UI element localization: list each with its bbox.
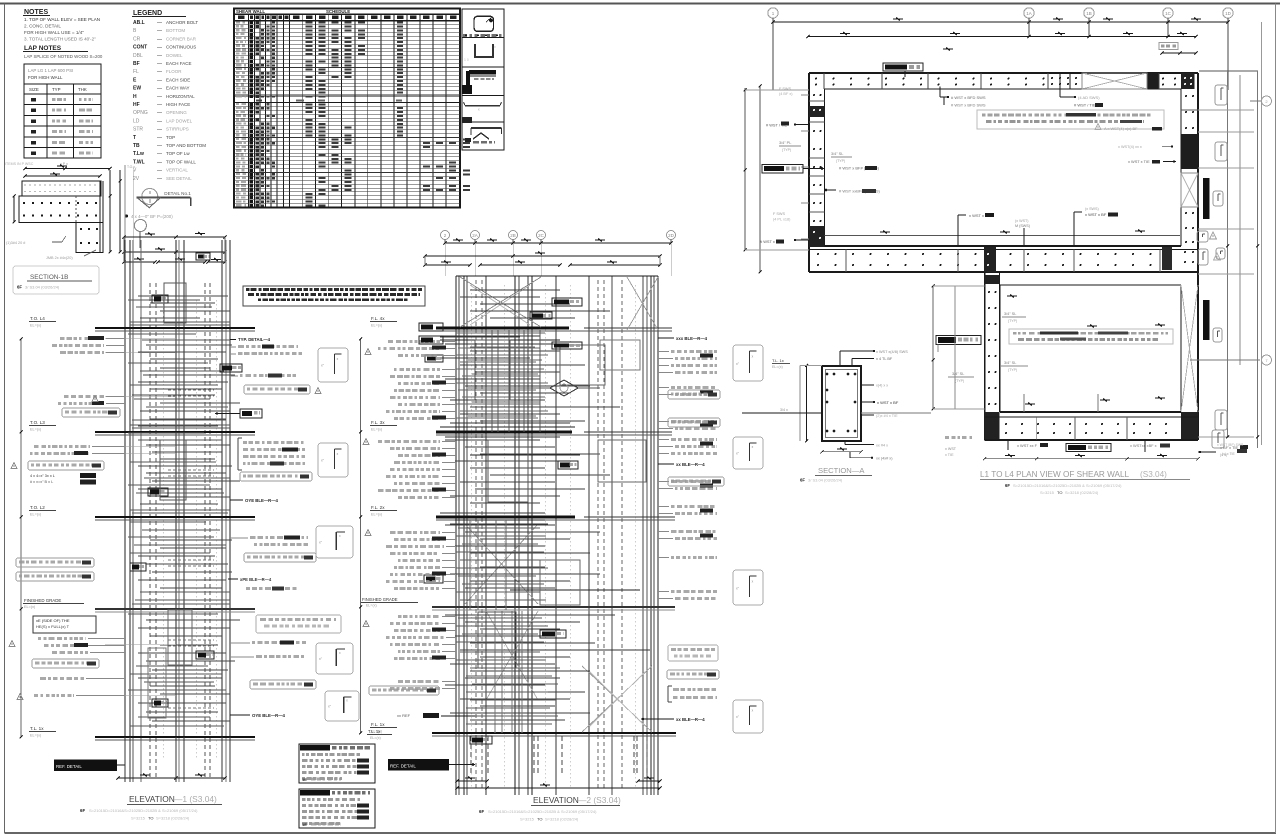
svg-text:S=3218 (02/28/24): S=3218 (02/28/24): [545, 817, 579, 822]
svg-text:FL: FL: [133, 69, 139, 75]
svg-text:EL=(x): EL=(x): [371, 324, 383, 328]
svg-text:6F: 6F: [1005, 483, 1010, 488]
svg-text:CR: CR: [133, 36, 141, 42]
svg-text:REF. DETAIL: REF. DETAIL: [56, 764, 82, 769]
svg-text:BOTTOM: BOTTOM: [166, 28, 185, 33]
svg-text:—: —: [157, 61, 162, 67]
svg-text:—: —: [157, 168, 162, 174]
svg-text:# WST x BFD SWS: # WST x BFD SWS: [951, 95, 986, 100]
svg-text:—: —: [157, 159, 162, 165]
svg-text:xx (4x# x): xx (4x# x): [876, 457, 893, 461]
svg-text:LAP SPLICE OF NOTED WOOD S=200: LAP SPLICE OF NOTED WOOD S=200: [24, 54, 103, 59]
svg-text:JMB 2x #4x(20): JMB 2x #4x(20): [46, 256, 73, 260]
svg-text:TYP: TYP: [52, 87, 61, 92]
svg-text:ELEVATION: ELEVATION: [533, 795, 579, 805]
svg-text:FINISHED GRADE: FINISHED GRADE: [362, 597, 398, 602]
svg-text:1E: 1E: [302, 777, 307, 782]
svg-text:# x x=x" B x L: # x x=x" B x L: [30, 480, 53, 484]
svg-text:EL=(x): EL=(x): [772, 365, 783, 369]
svg-text:(TYP): (TYP): [1008, 368, 1017, 372]
svg-text:(S3.04): (S3.04): [1140, 470, 1167, 479]
svg-text:F SWS: F SWS: [779, 87, 791, 91]
svg-text:HIGH FACE: HIGH FACE: [166, 102, 190, 107]
svg-text:—1 (S3.04): —1 (S3.04): [174, 794, 217, 804]
svg-text:(x WST): (x WST): [1015, 219, 1029, 223]
svg-text:(4 PL x18): (4 PL x18): [773, 218, 791, 222]
svg-text:REF. DETAIL: REF. DETAIL: [390, 764, 416, 769]
svg-text:H: H: [133, 94, 137, 100]
svg-text:1D: 1D: [1225, 11, 1232, 16]
svg-text:(1)3#4 20 #: (1)3#4 20 #: [6, 241, 26, 245]
svg-text:SHEAR WALL: SHEAR WALL: [236, 9, 265, 14]
svg-text:SCHEDULE: SCHEDULE: [326, 9, 350, 14]
svg-text:1E: 1E: [302, 822, 307, 827]
svg-text:S=3215: S=3215: [520, 817, 535, 822]
svg-text:(x) x TIE: (x) x TIE: [1222, 452, 1235, 456]
svg-text:T: T: [133, 135, 136, 141]
svg-text:T.O.x: T.O.x: [127, 165, 135, 169]
svg-text:DETAIL No.1: DETAIL No.1: [164, 191, 191, 196]
svg-text:(4 BF x): (4 BF x): [779, 92, 793, 96]
svg-text:SECTION—A: SECTION—A: [818, 466, 865, 475]
svg-text:1 0: 1 0: [464, 58, 469, 62]
svg-text:S=21015D=21016&S=21025D=2102B: S=21015D=21016&S=21025D=2102B & S=21069 …: [1013, 483, 1122, 488]
svg-text:3/4" SL: 3/4" SL: [1004, 361, 1016, 365]
svg-text:2D: 2D: [668, 233, 675, 238]
svg-text:LD: LD: [133, 118, 140, 124]
svg-text:xx #4 x: xx #4 x: [876, 444, 888, 448]
svg-text:(4 AD SWS): (4 AD SWS): [1078, 95, 1100, 100]
svg-text:(TYP): (TYP): [836, 159, 845, 163]
svg-text:—: —: [157, 77, 162, 83]
svg-text:—: —: [157, 118, 162, 124]
svg-text:EL=(x): EL=(x): [370, 736, 381, 740]
svg-text:CONTINUOUS: CONTINUOUS: [166, 45, 196, 50]
svg-text:M (SWS): M (SWS): [1015, 224, 1030, 228]
svg-text:—: —: [157, 69, 162, 75]
svg-text:CORNER BAR: CORNER BAR: [166, 36, 197, 41]
svg-text:—: —: [157, 36, 162, 42]
svg-text:3/4 x: 3/4 x: [780, 408, 788, 412]
svg-text:FINISHED GRADE: FINISHED GRADE: [24, 598, 61, 603]
svg-text:4 x 4—0" BF P=(200): 4 x 4—0" BF P=(200): [131, 214, 173, 219]
svg-text:xx BLE—R—4: xx BLE—R—4: [676, 717, 705, 722]
svg-text:EACH SIDE: EACH SIDE: [166, 77, 190, 82]
svg-text:ITEMS IN P WSC: ITEMS IN P WSC: [5, 162, 34, 166]
svg-text:x WST x BF: x WST x BF: [1085, 212, 1107, 217]
svg-text:EL=(x): EL=(x): [30, 734, 42, 738]
svg-text:—: —: [157, 20, 162, 26]
svg-text:6F: 6F: [80, 808, 85, 813]
svg-text:xE (SIDE OF) THE: xE (SIDE OF) THE: [36, 618, 70, 623]
svg-text:DBL: DBL: [133, 53, 143, 59]
svg-text:EL=(x): EL=(x): [24, 605, 36, 609]
svg-text:T.O. L3: T.O. L3: [30, 420, 45, 425]
svg-text:(2)x #4 x TIE: (2)x #4 x TIE: [876, 414, 898, 418]
svg-text:2A: 2A: [472, 233, 478, 238]
svg-text:OYE BLE—R—4: OYE BLE—R—4: [252, 713, 286, 718]
svg-text:S=21015D=21016&S=21025D=2102B: S=21015D=21016&S=21025D=2102B & S=21069 …: [89, 808, 198, 813]
svg-text:3. TOTAL LENGTH USED IS 40'-2": 3. TOTAL LENGTH USED IS 40'-2": [24, 37, 96, 42]
svg-text:EL=(x): EL=(x): [30, 324, 42, 328]
svg-text:x WST x TIE: x WST x TIE: [1128, 159, 1150, 164]
svg-text:DOWEL: DOWEL: [166, 53, 183, 58]
svg-text:LAP DOWEL: LAP DOWEL: [166, 118, 193, 123]
svg-text:OPENING: OPENING: [166, 110, 187, 115]
svg-text:ELEVATION: ELEVATION: [129, 794, 175, 804]
svg-text:HE(S) x FULL(x) T: HE(S) x FULL(x) T: [36, 624, 70, 629]
svg-text:A x WST(4) x(x) BF: A x WST(4) x(x) BF: [1104, 126, 1138, 131]
svg-text:NOTES: NOTES: [24, 9, 48, 16]
svg-text:(TYP): (TYP): [955, 379, 964, 383]
svg-text:—: —: [157, 127, 162, 133]
svg-text:TO: TO: [1057, 490, 1062, 495]
svg-text:THK: THK: [78, 87, 87, 92]
svg-text:x: x: [494, 45, 496, 49]
svg-text:—: —: [157, 176, 162, 182]
svg-text:TOP AND BOTTOM: TOP AND BOTTOM: [166, 143, 206, 148]
svg-text:TOP: TOP: [166, 135, 175, 140]
svg-text:x TIE: x TIE: [945, 453, 954, 457]
svg-text:LAP LG 1 LAP 600 PSI: LAP LG 1 LAP 600 PSI: [28, 68, 73, 73]
svg-text:STR: STR: [133, 127, 143, 133]
svg-text:6F: 6F: [800, 478, 805, 483]
svg-text:SIZE: SIZE: [29, 87, 39, 92]
svg-text:3/4" PL: 3/4" PL: [779, 141, 791, 145]
svg-text:xx REF: xx REF: [397, 713, 411, 718]
svg-text:F.L. 2x: F.L. 2x: [371, 505, 385, 510]
svg-text:xPE BLE—R—4: xPE BLE—R—4: [240, 577, 272, 582]
svg-text:—: —: [157, 94, 162, 100]
svg-text:FOR HIGH WALL USE = 1/4": FOR HIGH WALL USE = 1/4": [24, 30, 84, 35]
svg-text:x WSTxx xBF x: x WSTxx xBF x: [1130, 443, 1157, 448]
svg-text:—: —: [157, 28, 162, 34]
svg-text:3/4" SL: 3/4" SL: [831, 152, 843, 156]
svg-text:S=3215: S=3215: [131, 816, 146, 821]
svg-text:x WST: x WST: [945, 447, 957, 451]
svg-text:F SWS: F SWS: [773, 212, 785, 216]
svg-text:TYP. DETAIL—4: TYP. DETAIL—4: [238, 337, 271, 342]
svg-text:FLOOR: FLOOR: [166, 69, 182, 74]
svg-text:TOP OF Lw: TOP OF Lw: [166, 151, 190, 156]
svg-text:SEE DETAIL: SEE DETAIL: [166, 176, 192, 181]
svg-text:OPNG: OPNG: [133, 110, 148, 116]
svg-text:—: —: [157, 86, 162, 92]
svg-text:—: —: [157, 151, 162, 157]
svg-text:# WST / TIE: # WST / TIE: [1074, 103, 1096, 108]
svg-text:xxx BLE—R—4: xxx BLE—R—4: [676, 336, 708, 341]
svg-text:4 x 4=x" 3x x L: 4 x 4=x" 3x x L: [30, 474, 55, 478]
svg-text:x(4) x x: x(4) x x: [876, 384, 888, 388]
svg-text:S=3218 (02/28/24): S=3218 (02/28/24): [1065, 490, 1099, 495]
svg-text:x WST(4) xx x: x WST(4) xx x: [1118, 145, 1142, 149]
svg-text:xx BLE—R—4: xx BLE—R—4: [676, 462, 705, 467]
svg-text:T.L. 1x: T.L. 1x: [368, 729, 381, 734]
svg-text:F.L. 1x: F.L. 1x: [371, 722, 385, 727]
svg-text:2C: 2C: [538, 233, 545, 238]
svg-text:3/ S3.04 (03/26/24): 3/ S3.04 (03/26/24): [808, 478, 843, 483]
svg-text:T.L. 1x: T.L. 1x: [30, 726, 44, 731]
svg-text:1. TOP OF WALL ELEV = SEE PLAN: 1. TOP OF WALL ELEV = SEE PLAN: [24, 17, 100, 22]
svg-text:T.O. L4: T.O. L4: [30, 316, 45, 321]
svg-text:2B: 2B: [510, 233, 516, 238]
svg-text:6F: 6F: [479, 809, 484, 814]
svg-text:S=3218 (02/28/24): S=3218 (02/28/24): [156, 816, 190, 821]
svg-text:# WST x BFD SWS: # WST x BFD SWS: [951, 103, 986, 108]
svg-text:T.O. L2: T.O. L2: [30, 505, 45, 510]
svg-text:LAP NOTES: LAP NOTES: [24, 45, 62, 52]
svg-text:HORIZONTAL: HORIZONTAL: [166, 94, 195, 99]
svg-text:F.L. 3x: F.L. 3x: [371, 420, 385, 425]
svg-text:(TYP): (TYP): [782, 148, 791, 152]
svg-text:x 4 TL BF: x 4 TL BF: [876, 357, 893, 361]
svg-text:EL=(x): EL=(x): [30, 513, 42, 517]
svg-text:FOR HIGH WALL: FOR HIGH WALL: [28, 75, 63, 80]
svg-text:S=3215: S=3215: [1040, 490, 1055, 495]
svg-text:—: —: [157, 143, 162, 149]
svg-text:x WST x(4/8) SWS: x WST x(4/8) SWS: [876, 350, 908, 354]
svg-text:—: —: [157, 45, 162, 51]
svg-text:EW: EW: [133, 86, 141, 92]
svg-text:ANCHOR BOLT: ANCHOR BOLT: [166, 20, 198, 25]
svg-text:—: —: [157, 53, 162, 59]
svg-text:STIRRUPS: STIRRUPS: [166, 127, 189, 132]
svg-text:(x SWS): (x SWS): [1085, 207, 1099, 211]
svg-text:S=21015D=21016&S=21025D=2102B: S=21015D=21016&S=21025D=2102B & S=21069 …: [488, 809, 597, 814]
svg-text:CONT: CONT: [133, 45, 147, 51]
svg-text:TO: TO: [537, 817, 542, 822]
svg-text:6F: 6F: [17, 285, 22, 290]
svg-text:EACH FACE: EACH FACE: [166, 61, 192, 66]
svg-text:HF: HF: [133, 102, 140, 108]
svg-text:x WST xx F: x WST xx F: [1017, 443, 1038, 448]
svg-text:AB.L: AB.L: [133, 20, 145, 26]
svg-text:(TYP): (TYP): [1008, 319, 1017, 323]
svg-text:x WST (BF) SWS: x WST (BF) SWS: [1217, 443, 1244, 447]
svg-text:BF: BF: [133, 61, 140, 67]
svg-text:EL=(x): EL=(x): [366, 604, 377, 608]
svg-text:1B: 1B: [1086, 11, 1092, 16]
svg-text:3/ S3.04 (03/26/24): 3/ S3.04 (03/26/24): [25, 285, 60, 290]
svg-text:2V: 2V: [133, 176, 140, 182]
svg-text:T.L. 1x: T.L. 1x: [772, 358, 784, 363]
svg-text:1A: 1A: [1026, 11, 1032, 16]
svg-text:x WST x BF: x WST x BF: [877, 400, 899, 405]
svg-text:—: —: [157, 102, 162, 108]
svg-text:LEGEND: LEGEND: [133, 10, 162, 17]
svg-text:EL=(x): EL=(x): [371, 513, 383, 517]
svg-text:OYE BLE—R—4: OYE BLE—R—4: [245, 498, 279, 503]
svg-text:T.Lw: T.Lw: [133, 151, 144, 157]
svg-text:F.L. 4x: F.L. 4x: [371, 316, 385, 321]
svg-text:3/4" SL: 3/4" SL: [1004, 312, 1016, 316]
svg-text:—: —: [157, 110, 162, 116]
svg-text:—2 (S3.04): —2 (S3.04): [578, 795, 621, 805]
svg-text:VERTICAL: VERTICAL: [166, 168, 188, 173]
svg-text:—: —: [157, 135, 162, 141]
svg-text:EL=(x): EL=(x): [371, 428, 383, 432]
svg-text:EL=(x): EL=(x): [30, 428, 42, 432]
svg-text:L1 TO L4 PLAN VIEW OF SHEAR WA: L1 TO L4 PLAN VIEW OF SHEAR WALL: [980, 470, 1130, 479]
svg-text:1C: 1C: [1165, 11, 1172, 16]
svg-text:SECTION-1B: SECTION-1B: [30, 274, 68, 281]
svg-text:TB: TB: [133, 143, 140, 149]
svg-text:EACH WAY: EACH WAY: [166, 86, 190, 91]
svg-text:TOP OF WALL: TOP OF WALL: [166, 159, 196, 164]
svg-text:TO: TO: [148, 816, 153, 821]
svg-text:2. CONC. DETAIL: 2. CONC. DETAIL: [24, 24, 61, 29]
svg-text:3/4" SL: 3/4" SL: [952, 372, 964, 376]
